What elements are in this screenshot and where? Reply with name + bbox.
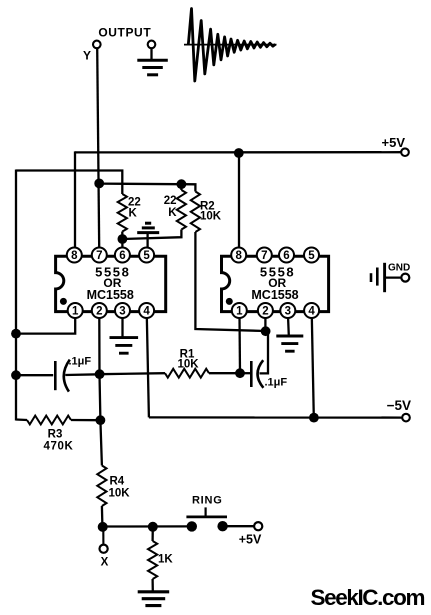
wire +5V to pin 8 of U1 <box>74 151 76 249</box>
terminal +5V bottom <box>239 522 263 546</box>
svg-text:R3: R3 <box>48 429 63 441</box>
svg-text:7: 7 <box>96 250 102 262</box>
svg-text:6: 6 <box>119 250 125 262</box>
junction C1 / pin 2 line / R1 <box>95 369 105 379</box>
svg-text:3: 3 <box>119 306 125 318</box>
svg-text:MC1558: MC1558 <box>87 288 134 302</box>
svg-text:.1μF: .1μF <box>69 356 92 368</box>
pushbutton RING <box>186 494 227 531</box>
resistor R1 10K <box>100 349 240 378</box>
resistor 22K #2 <box>164 184 186 230</box>
svg-text:4: 4 <box>143 306 150 318</box>
ground (inverted) at pin 5 of U1 <box>137 223 159 248</box>
+5V rail <box>75 135 409 156</box>
svg-text:.1μF: .1μF <box>265 377 288 389</box>
svg-text:K: K <box>168 207 177 219</box>
wire pin 1 of U2 down to R1/C2 node <box>238 316 241 373</box>
svg-text:+5V: +5V <box>382 135 406 150</box>
waveform sketch <box>184 9 277 82</box>
wire pin 4 of U1 down to -5V rail <box>147 316 149 417</box>
svg-text:X: X <box>101 557 109 569</box>
svg-text:R4: R4 <box>110 476 125 488</box>
svg-text:4: 4 <box>308 306 315 318</box>
junction R3 / pin 2 line <box>96 415 106 425</box>
svg-text:2: 2 <box>96 306 102 318</box>
wire pin 3 of U1 to ground <box>121 316 123 338</box>
GND terminal symbol <box>371 263 410 293</box>
op-amp U2 5558/MC1558 <box>222 248 329 319</box>
svg-text:6: 6 <box>283 250 289 262</box>
svg-text:−5V: −5V <box>387 398 411 413</box>
wire left rail vertical <box>15 170 17 421</box>
wire +5V rail down to pin 8 of U2 <box>238 152 240 247</box>
svg-text:8: 8 <box>235 250 242 262</box>
svg-text:K: K <box>129 208 138 220</box>
wire pin 3 of U2 to ground <box>287 316 290 336</box>
ground at pin 3 of U1 <box>110 336 139 339</box>
svg-text:RING: RING <box>192 494 223 506</box>
ground at pin 3 of U2 <box>276 335 303 338</box>
svg-text:MC1558: MC1558 <box>251 288 298 302</box>
-5V rail <box>149 398 411 421</box>
junction 1K top <box>148 522 158 532</box>
wire bottom node to RING switch <box>102 525 191 527</box>
junction R4 / X / wire <box>98 522 108 532</box>
wire 22K bottoms joined <box>122 230 181 240</box>
wire pin 2 of U1 down (node X line) <box>99 316 102 466</box>
svg-text:7: 7 <box>261 250 267 262</box>
junction left rail / C1 <box>11 370 21 380</box>
wire pin 1 of U1 to left rail <box>16 316 75 334</box>
op-amp U1 5558/MC1558 <box>56 248 166 319</box>
wire 22K #1 bottom to pin 6 of U1 <box>121 232 123 249</box>
wire R2 bottom down and right to pin 2 of U2 <box>195 232 265 331</box>
junction 22K #2 top <box>177 179 187 189</box>
wire pin 4 of U2 down to -5V rail <box>312 316 314 418</box>
junction -5V / U2 pin 4 <box>309 413 319 423</box>
wire left rail to top of R 22K #1 <box>16 171 122 195</box>
svg-text:8: 8 <box>71 250 78 262</box>
junction 22K #1 bottom / pin 6 <box>118 234 128 244</box>
svg-text:1: 1 <box>236 306 243 318</box>
resistor 1K <box>148 527 173 591</box>
svg-text:3: 3 <box>285 306 291 318</box>
svg-text:10K: 10K <box>109 488 131 500</box>
svg-text:1: 1 <box>72 306 79 318</box>
ground top (scope ground) <box>137 41 168 75</box>
svg-text:GND: GND <box>388 263 410 274</box>
svg-text:22: 22 <box>164 195 177 207</box>
resistor 22K #1 <box>118 194 141 232</box>
svg-text:+5V: +5V <box>239 533 262 547</box>
junction R1 / C2 / U2 pin 1 <box>235 368 245 378</box>
junction R2 wire / U2 pin 2 / C2 <box>261 326 271 336</box>
svg-text:5: 5 <box>308 250 315 262</box>
terminal Y (OUTPUT) <box>83 26 151 63</box>
svg-text:1K: 1K <box>158 554 173 566</box>
svg-text:470K: 470K <box>44 441 74 453</box>
wire RING to +5V terminal <box>223 525 254 527</box>
svg-text:OUTPUT: OUTPUT <box>98 26 151 40</box>
capacitor C1 .1uF <box>16 356 100 392</box>
junction left rail / pin 1 wire <box>11 329 21 339</box>
terminal X <box>100 527 109 569</box>
svg-text:Y: Y <box>83 49 91 63</box>
junction node A on output line <box>94 179 104 189</box>
svg-text:2: 2 <box>262 306 268 318</box>
resistor R2 10K <box>191 192 222 233</box>
wire output Y down to pin 7 of U1 <box>97 48 99 248</box>
svg-text:5: 5 <box>143 250 150 262</box>
svg-text:SeekIC.com: SeekIC.com <box>311 585 425 610</box>
svg-text:10K: 10K <box>200 211 222 223</box>
ground below 1K <box>138 590 170 593</box>
wire node A: output line to tops of 22K #2 and R2 <box>99 184 195 192</box>
resistor R3 470K <box>16 416 100 453</box>
junction +5V / U2 pin 8 <box>234 148 244 158</box>
resistor R4 10K <box>97 466 130 527</box>
capacitor C2 .1uF <box>240 331 287 389</box>
svg-text:10K: 10K <box>177 359 199 371</box>
